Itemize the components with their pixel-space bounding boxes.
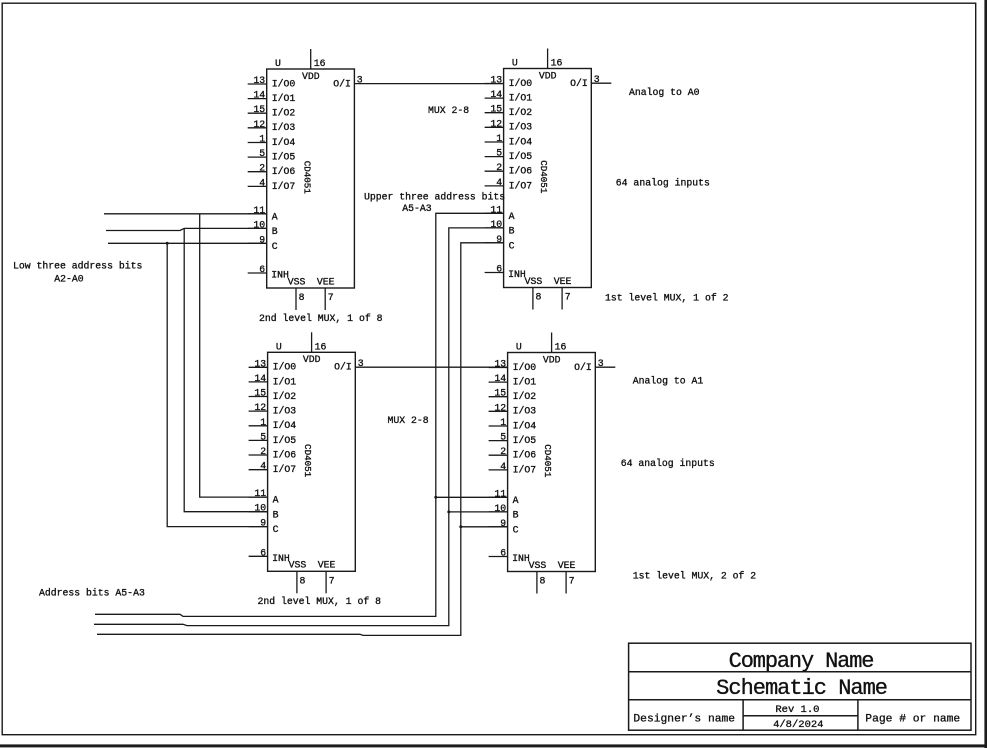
svg-text:14: 14 (490, 89, 502, 100)
svg-text:I/O5: I/O5 (273, 435, 297, 446)
IC U (1st level MUX top) CD4051 body (504, 58, 592, 288)
svg-text:5: 5 (260, 431, 266, 442)
svg-text:INH: INH (271, 270, 289, 281)
svg-text:I/O2: I/O2 (509, 107, 533, 118)
svg-text:O/I: O/I (334, 362, 352, 373)
svg-text:I/O3: I/O3 (513, 406, 537, 417)
svg-text:8: 8 (540, 576, 546, 587)
svg-text:Designer’s name: Designer’s name (633, 713, 735, 725)
wire: address A4 net - top-right pin B, vertical, to bottom bus (94, 228, 504, 626)
svg-text:Address bits A5-A3: Address bits A5-A3 (39, 588, 145, 599)
1st level MUX bottom: O/I output pin 3 (574, 358, 604, 373)
svg-text:8: 8 (536, 292, 542, 303)
svg-text:VSS: VSS (288, 276, 306, 287)
svg-text:I/O0: I/O0 (513, 362, 537, 373)
svg-text:I/O1: I/O1 (509, 93, 533, 104)
1st level MUX top: O/I output pin 3 (570, 74, 600, 89)
svg-text:6: 6 (260, 547, 266, 558)
wire: top-right U O/I pin3 stub (Analog to A0) (591, 82, 611, 84)
svg-text:6: 6 (496, 264, 502, 275)
svg-text:I/O5: I/O5 (509, 151, 533, 162)
svg-text:7: 7 (329, 575, 335, 586)
svg-text:7: 7 (569, 576, 575, 587)
svg-text:Upper three address bits: Upper three address bits (364, 191, 505, 202)
svg-text:15: 15 (253, 104, 265, 115)
svg-text:O/I: O/I (574, 362, 592, 373)
svg-text:A: A (509, 211, 515, 222)
svg-text:VEE: VEE (554, 276, 572, 287)
svg-text:2: 2 (496, 162, 502, 173)
svg-text:6: 6 (259, 264, 265, 275)
1st level MUX top: VSS pin 8 and VEE pin 7 (525, 276, 572, 310)
svg-text:U: U (512, 58, 518, 69)
svg-text:VSS: VSS (289, 560, 307, 571)
svg-text:4: 4 (500, 461, 506, 472)
svg-text:I/O2: I/O2 (513, 391, 537, 402)
svg-text:I/O2: I/O2 (272, 108, 296, 119)
svg-text:I/O1: I/O1 (272, 93, 296, 104)
2nd level MUX bottom: VSS pin 8 and VEE pin 7 (289, 560, 336, 594)
svg-text:I/O5: I/O5 (513, 435, 537, 446)
svg-text:1: 1 (496, 133, 502, 144)
svg-text:B: B (509, 226, 515, 237)
svg-text:14: 14 (494, 373, 506, 384)
svg-text:Rev 1.0: Rev 1.0 (775, 704, 819, 716)
svg-text:I/O5: I/O5 (272, 152, 296, 163)
svg-text:5: 5 (500, 432, 506, 443)
svg-text:VDD: VDD (302, 71, 320, 82)
svg-text:7: 7 (328, 292, 334, 303)
svg-text:2nd level MUX, 1 of 8: 2nd level MUX, 1 of 8 (258, 596, 382, 607)
wire: address A1 net - vertical drop to bottom-left pin B (184, 228, 267, 511)
2nd level MUX top: VDD pin 16 (302, 49, 326, 82)
1st level MUX top: address pins A=11 B=10 C=9 (485, 204, 515, 251)
svg-text:VSS: VSS (525, 276, 543, 287)
wire: address A0 net - vertical drop to bottom-left pin A (200, 214, 268, 497)
svg-text:Page # or name: Page # or name (865, 713, 960, 725)
1st level MUX bottom: address pins A=11 B=10 C=9 (489, 488, 519, 535)
svg-text:MUX 2-8: MUX 2-8 (428, 105, 469, 116)
2nd level MUX bottom: O/I output pin 3 (334, 358, 364, 373)
svg-text:I/O0: I/O0 (273, 362, 297, 373)
2nd level MUX bottom: address pins A=11 B=10 C=9 (249, 488, 279, 535)
svg-text:CD4051: CD4051 (538, 160, 549, 194)
svg-text:Low three address bits: Low three address bits (13, 261, 142, 272)
svg-text:64 analog inputs: 64 analog inputs (621, 458, 715, 469)
svg-text:15: 15 (254, 388, 266, 399)
svg-text:VEE: VEE (318, 560, 336, 571)
svg-text:16: 16 (555, 342, 567, 353)
svg-text:B: B (513, 510, 519, 521)
svg-text:13: 13 (254, 358, 266, 369)
svg-text:B: B (273, 509, 279, 520)
svg-text:U: U (276, 341, 282, 352)
svg-text:VDD: VDD (543, 354, 561, 365)
svg-text:I/O1: I/O1 (513, 377, 537, 388)
svg-text:A5-A3: A5-A3 (402, 203, 432, 214)
svg-text:I/O7: I/O7 (272, 181, 296, 192)
svg-text:1st level MUX, 1 of 2: 1st level MUX, 1 of 2 (605, 293, 729, 304)
svg-text:Analog to A0: Analog to A0 (629, 87, 700, 98)
IC U (1st level MUX bottom) CD4051 body (508, 342, 596, 572)
svg-text:I/O7: I/O7 (513, 464, 537, 475)
svg-text:B: B (272, 226, 278, 237)
svg-text:7: 7 (565, 292, 571, 303)
IC U (2nd level MUX bottom) CD4051 body (268, 341, 356, 571)
svg-text:64 analog inputs: 64 analog inputs (616, 178, 710, 189)
svg-text:A: A (513, 495, 519, 506)
svg-text:CD4051: CD4051 (542, 444, 553, 478)
svg-text:2: 2 (260, 446, 266, 457)
2nd level MUX top: O/I output pin 3 (333, 75, 363, 90)
svg-text:2: 2 (500, 446, 506, 457)
2nd level MUX top: I/O pins 13,14,15,12,1,5,2,4 (I/O0-I/O7) (248, 75, 296, 192)
2nd level MUX bottom: I/O pins 13,14,15,12,1,5,2,4 (I/O0-I/O7) (249, 358, 297, 475)
svg-text:1: 1 (259, 134, 265, 145)
wire: A4 branch into bottom-right pin B (449, 511, 508, 513)
svg-text:I/O4: I/O4 (273, 420, 297, 431)
svg-text:I/O0: I/O0 (272, 78, 296, 89)
svg-text:I/O1: I/O1 (273, 376, 297, 387)
svg-text:1st level MUX, 2 of 2: 1st level MUX, 2 of 2 (633, 571, 757, 582)
1st level MUX bottom: INH pin 6 (489, 548, 530, 565)
wire: address A2 net - vertical drop to bottom-left pin C (167, 243, 267, 526)
svg-text:I/O0: I/O0 (509, 78, 533, 89)
svg-text:C: C (273, 524, 279, 535)
svg-text:O/I: O/I (333, 78, 351, 89)
svg-text:I/O4: I/O4 (509, 136, 533, 147)
svg-text:I/O6: I/O6 (272, 166, 296, 177)
wire: address A1 net - horizontal into top-left pin B (106, 228, 267, 230)
svg-text:16: 16 (314, 58, 326, 69)
wire: bottom-right U O/I pin3 stub (Analog to A1) (595, 366, 615, 368)
title block (629, 643, 971, 730)
1st level MUX bottom: I/O pins 13,14,15,12,1,5,2,4 (I/O0-I/O7) (489, 359, 537, 476)
svg-text:I/O7: I/O7 (509, 180, 533, 191)
svg-text:15: 15 (494, 388, 506, 399)
svg-text:INH: INH (272, 553, 290, 564)
svg-text:I/O3: I/O3 (272, 122, 296, 133)
svg-text:14: 14 (253, 90, 265, 101)
svg-text:A: A (272, 211, 278, 222)
svg-text:Company Name: Company Name (729, 649, 874, 674)
2nd level MUX top: address pins A=11 B=10 C=9 (248, 205, 278, 252)
1st level MUX bottom: VSS pin 8 and VEE pin 7 (529, 560, 576, 594)
svg-text:8: 8 (299, 292, 305, 303)
1st level MUX top: INH pin 6 (485, 264, 526, 281)
svg-text:12: 12 (494, 402, 506, 413)
svg-text:A: A (273, 495, 279, 506)
svg-text:I/O4: I/O4 (513, 420, 537, 431)
svg-text:16: 16 (551, 58, 563, 69)
svg-text:I/O3: I/O3 (509, 122, 533, 133)
svg-text:12: 12 (254, 402, 266, 413)
junction: A3 net tap at bottom-right pin A (434, 496, 437, 499)
svg-text:C: C (513, 524, 519, 535)
2nd level MUX top: VSS pin 8 and VEE pin 7 (288, 276, 335, 310)
svg-text:I/O7: I/O7 (273, 464, 297, 475)
wire: address A3 net - top-right pin A, vertical, to bottom bus (95, 213, 504, 616)
svg-text:1: 1 (500, 417, 506, 428)
1st level MUX top: I/O pins 13,14,15,12,1,5,2,4 (I/O0-I/O7) (485, 75, 533, 192)
svg-text:8: 8 (300, 575, 306, 586)
svg-text:I/O4: I/O4 (272, 137, 296, 148)
wire: bottom-left U O/I pin3 to bottom-right U I/O0 pin13 (355, 366, 507, 368)
junction: A4 net tap at bottom-right pin B (447, 510, 450, 513)
2nd level MUX bottom: INH pin 6 (249, 547, 290, 564)
svg-text:I/O3: I/O3 (273, 406, 297, 417)
svg-text:Analog to A1: Analog to A1 (633, 376, 704, 387)
svg-text:12: 12 (490, 118, 502, 129)
svg-text:VDD: VDD (303, 354, 321, 365)
svg-text:1: 1 (260, 417, 266, 428)
1st level MUX bottom: VDD pin 16 (543, 333, 567, 366)
svg-text:VDD: VDD (539, 70, 557, 81)
svg-text:13: 13 (253, 75, 265, 86)
svg-text:U: U (275, 58, 281, 69)
svg-text:VEE: VEE (558, 560, 576, 571)
svg-text:2: 2 (259, 163, 265, 174)
1st level MUX top: VDD pin 16 (539, 49, 563, 82)
svg-text:I/O2: I/O2 (273, 391, 297, 402)
svg-text:4: 4 (496, 177, 502, 188)
svg-text:I/O6: I/O6 (513, 450, 537, 461)
svg-text:MUX 2-8: MUX 2-8 (388, 415, 429, 426)
svg-text:INH: INH (512, 553, 530, 564)
svg-text:C: C (509, 240, 515, 251)
wire: A5 branch into bottom-right pin C (461, 526, 508, 528)
svg-text:U: U (516, 342, 522, 353)
wire: address A0 net - horizontal into top-left pin A (104, 213, 267, 215)
svg-text:VEE: VEE (317, 276, 335, 287)
junction: A2 net tap (166, 242, 169, 245)
svg-text:5: 5 (496, 148, 502, 159)
svg-text:O/I: O/I (570, 78, 588, 89)
svg-text:14: 14 (254, 373, 266, 384)
svg-text:6: 6 (500, 548, 506, 559)
svg-text:CD4051: CD4051 (302, 444, 313, 478)
svg-text:15: 15 (490, 104, 502, 115)
svg-text:4/8/2024: 4/8/2024 (773, 719, 823, 731)
svg-text:4: 4 (260, 461, 266, 472)
svg-text:2nd level MUX, 1 of 8: 2nd level MUX, 1 of 8 (259, 313, 383, 324)
svg-text:I/O6: I/O6 (273, 449, 297, 460)
junction: A5 net tap at bottom-right pin C (459, 525, 462, 528)
wire: address A5 net - top-right pin C, vertical, to bottom bus (97, 243, 504, 636)
svg-text:VSS: VSS (529, 560, 547, 571)
2nd level MUX top: INH pin 6 (248, 264, 289, 281)
wire: top-left U O/I pin3 to top-right U I/O0 pin13 (354, 83, 503, 85)
svg-text:CD4051: CD4051 (301, 161, 312, 195)
svg-text:A2-A0: A2-A0 (54, 273, 84, 284)
svg-text:4: 4 (259, 177, 265, 188)
wire: A3 branch into bottom-right pin A (436, 496, 508, 498)
wire: address A2 net - horizontal into top-left pin C (108, 242, 267, 244)
2nd level MUX bottom: VDD pin 16 (303, 332, 327, 365)
svg-text:5: 5 (259, 148, 265, 159)
svg-text:I/O6: I/O6 (509, 166, 533, 177)
svg-text:16: 16 (315, 342, 327, 353)
svg-text:C: C (272, 241, 278, 252)
svg-text:Schematic Name: Schematic Name (716, 676, 887, 701)
svg-text:INH: INH (508, 269, 526, 280)
svg-text:12: 12 (253, 119, 265, 130)
IC U (2nd level MUX top) CD4051 body (267, 58, 355, 288)
